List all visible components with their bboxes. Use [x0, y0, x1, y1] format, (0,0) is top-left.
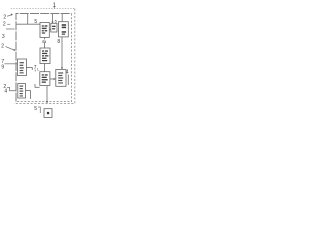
svg-text:1: 1: [53, 3, 57, 9]
svg-text:2: 2: [1, 44, 4, 50]
svg-text:5: 5: [34, 19, 37, 25]
svg-text:2: 2: [3, 14, 6, 20]
svg-text:3: 3: [2, 34, 5, 40]
svg-text:9: 9: [1, 65, 4, 71]
svg-text:4: 4: [4, 89, 7, 95]
svg-text:L: L: [37, 67, 40, 72]
svg-text:8: 8: [57, 39, 60, 45]
svg-text:2: 2: [3, 22, 6, 28]
svg-text:4a: 4a: [42, 39, 47, 44]
svg-text:5: 5: [55, 19, 58, 24]
svg-text:4: 4: [66, 70, 69, 76]
svg-text:5: 5: [34, 106, 37, 112]
